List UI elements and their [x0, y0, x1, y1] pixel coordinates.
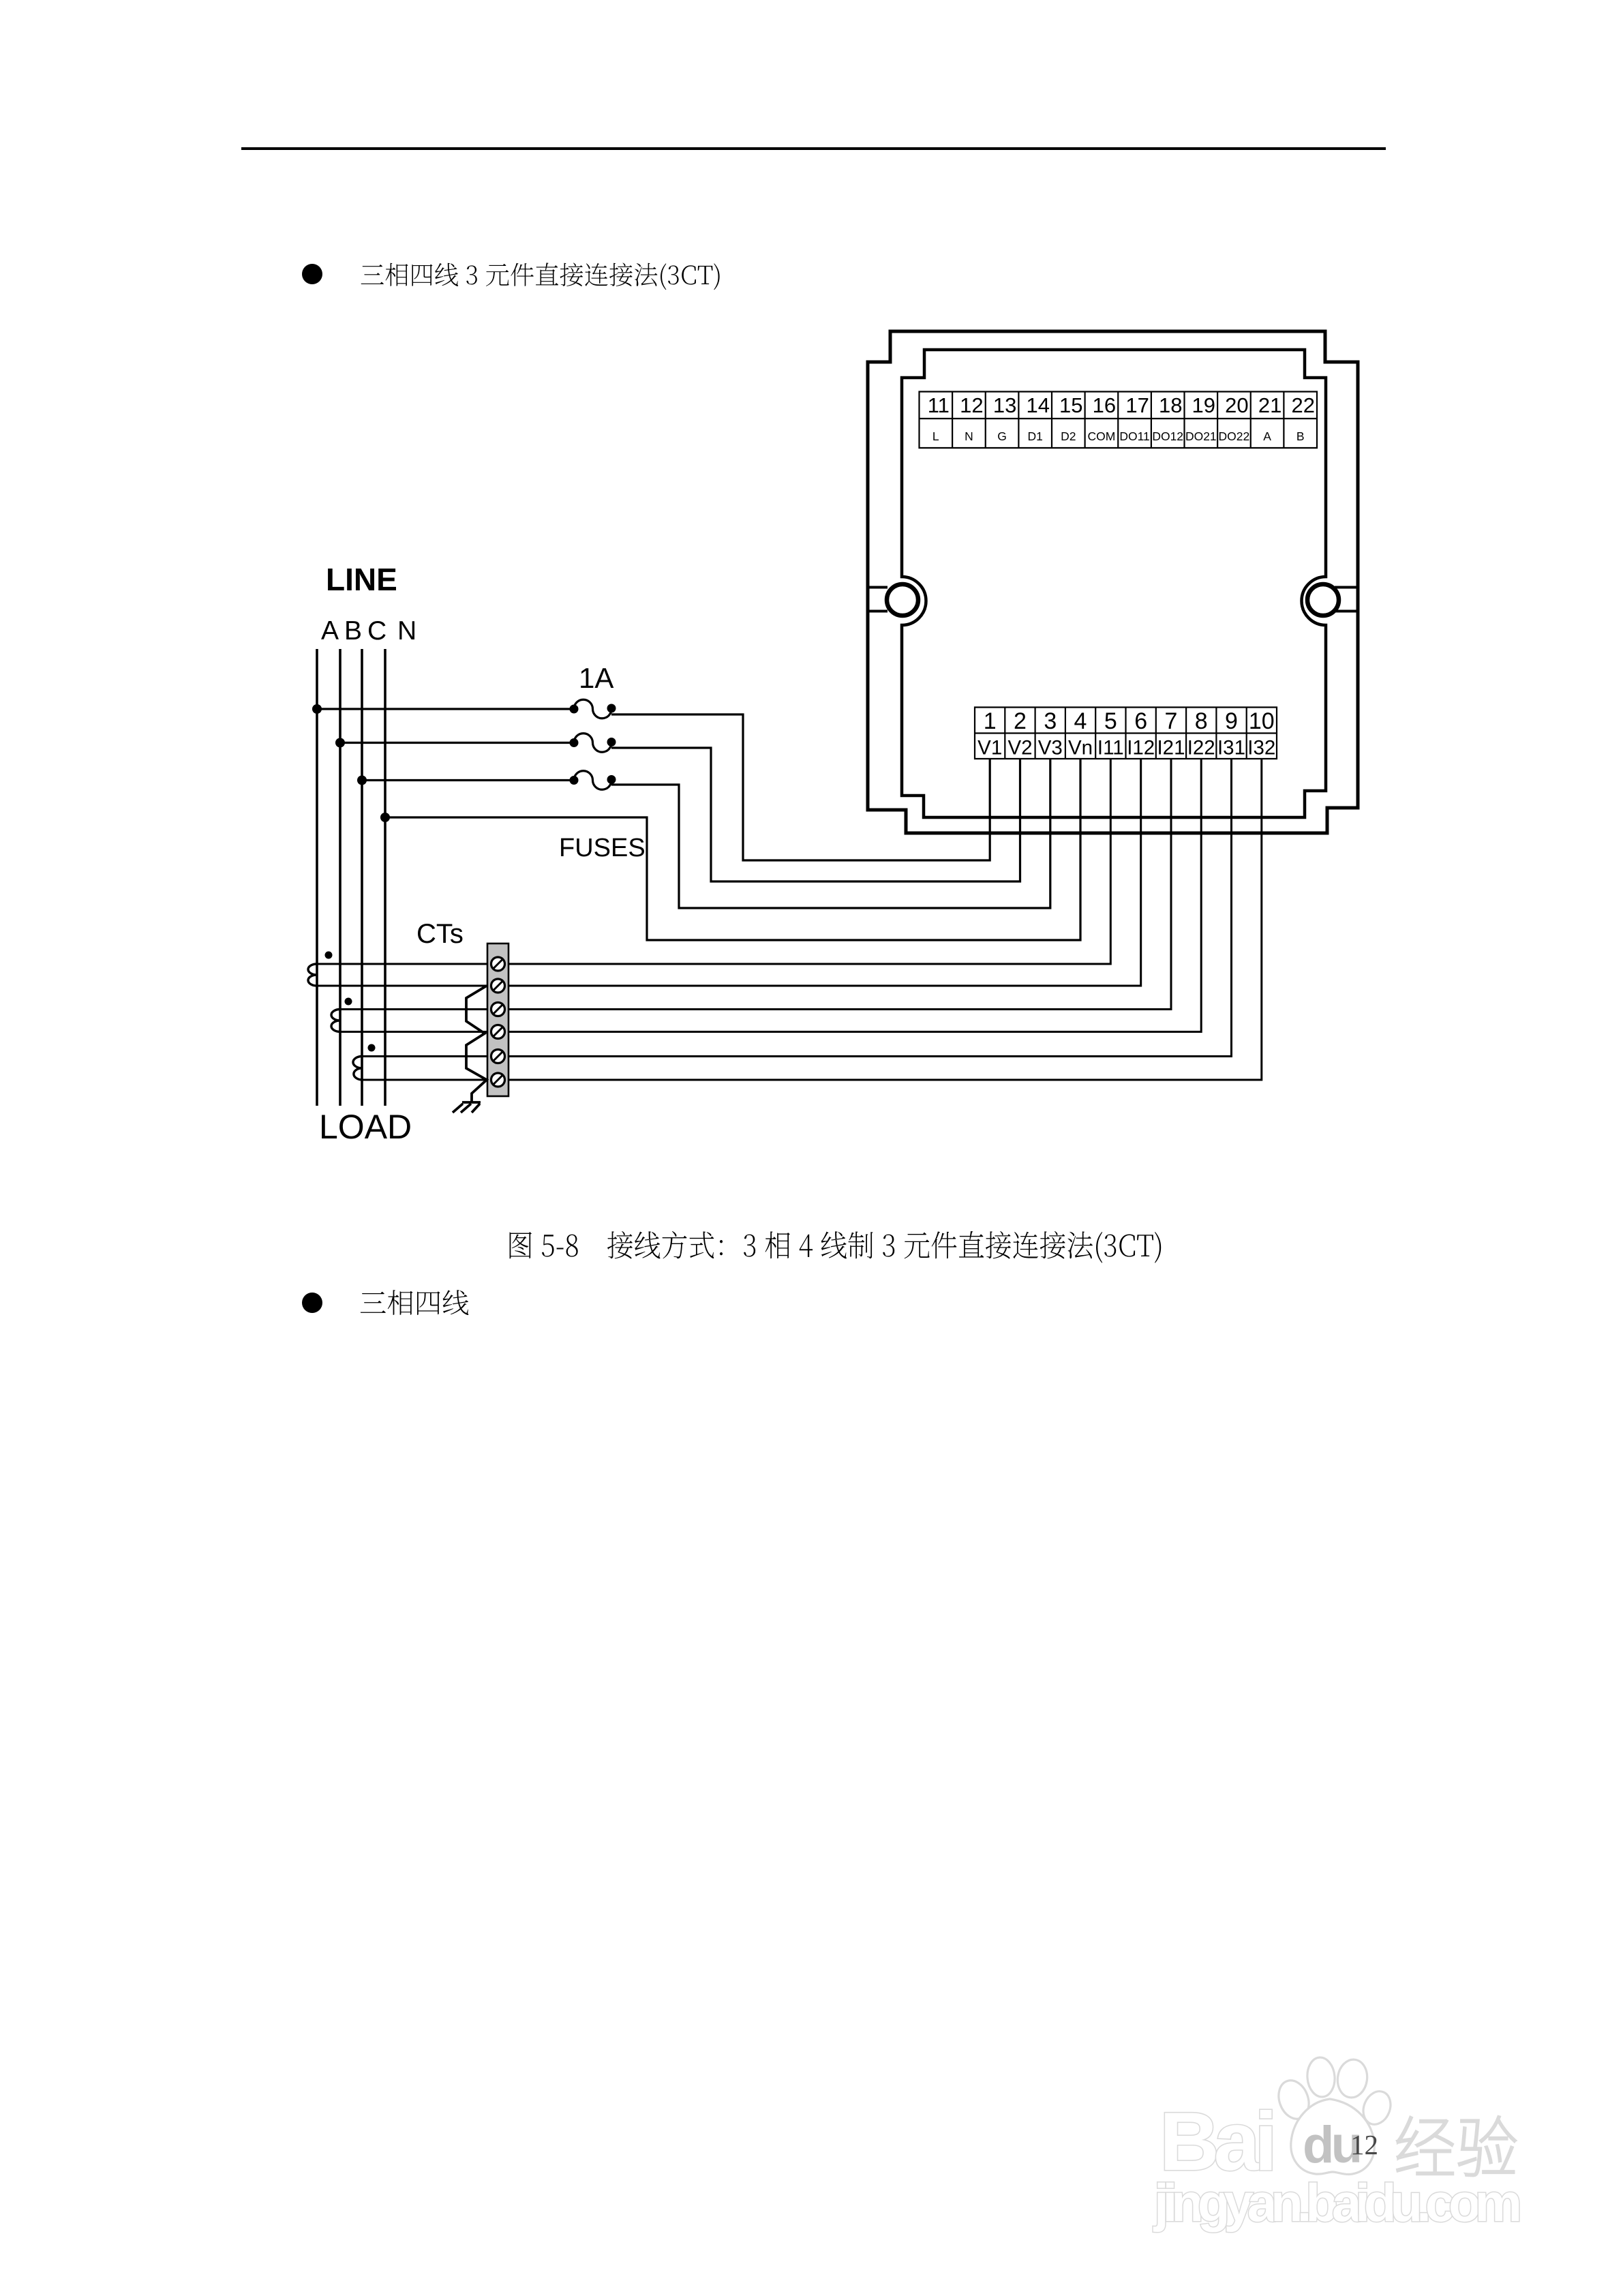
svg-text:I12: I12 — [1127, 737, 1155, 759]
svg-text:V3: V3 — [1038, 737, 1063, 759]
screw terminal 4 — [491, 1025, 505, 1039]
svg-text:19: 19 — [1192, 393, 1215, 417]
wire: fuse F1 output to terminal 1 (V1) — [611, 714, 990, 860]
svg-text:9: 9 — [1225, 708, 1238, 734]
svg-text:V2: V2 — [1007, 737, 1032, 759]
svg-text:17: 17 — [1125, 393, 1149, 417]
shorting zigzag link — [466, 986, 487, 1102]
svg-text:jingyan.baidu.com: jingyan.baidu.com — [1153, 2173, 1522, 2233]
svg-text:N: N — [397, 616, 416, 646]
svg-text:21: 21 — [1258, 393, 1281, 417]
screw terminal 1 — [491, 957, 505, 971]
top terminal labels L N G D1 D2 COM DO11 DO12 DO21 DO22 A B — [932, 429, 1305, 443]
screw terminal 3 — [491, 1003, 505, 1016]
svg-text:I11: I11 — [1097, 737, 1124, 759]
CT3 polarity dot — [368, 1044, 376, 1052]
junction dot on phase C — [357, 776, 367, 785]
meter outer outline — [868, 331, 1358, 833]
fuse F2 (1A) — [574, 734, 611, 752]
left mounting hole — [887, 584, 918, 616]
svg-text:DO22: DO22 — [1219, 429, 1250, 443]
watermark: 经验 — [1397, 2116, 1515, 2176]
svg-text:4: 4 — [1074, 708, 1087, 734]
wire: CT secondary to terminal 5 (I11) — [317, 759, 1110, 964]
svg-text:A: A — [1263, 429, 1271, 443]
heading text: 三相四线 3 元件直接连接法(3CT) — [361, 262, 720, 290]
svg-text:12: 12 — [1350, 2129, 1378, 2160]
svg-text:I31: I31 — [1217, 737, 1245, 759]
svg-text:1A: 1A — [579, 662, 613, 694]
phase line B — [339, 649, 342, 1106]
bottom terminal strip frame (terminals 1-10) — [975, 708, 1277, 759]
svg-text:D2: D2 — [1061, 429, 1076, 443]
svg-text:6: 6 — [1134, 708, 1147, 734]
left mounting tab — [868, 588, 888, 611]
phase line N — [384, 649, 386, 1106]
svg-text:N: N — [965, 429, 973, 443]
meter inner outline — [902, 350, 1326, 817]
CT2 polarity dot — [345, 998, 352, 1006]
wire: CT secondary to terminal 9 (I31) — [362, 759, 1232, 1057]
svg-text:12: 12 — [960, 393, 983, 417]
svg-text:15: 15 — [1059, 393, 1082, 417]
junction dot on phase A — [312, 704, 322, 714]
svg-text:14: 14 — [1026, 393, 1049, 417]
svg-text:L: L — [932, 429, 939, 443]
CT2 coil — [331, 1010, 340, 1032]
svg-text:20: 20 — [1225, 393, 1248, 417]
svg-text:V1: V1 — [977, 737, 1002, 759]
top terminal strip frame (terminals 11-22) — [920, 392, 1318, 449]
right mounting hole — [1307, 584, 1339, 616]
wire: phase B to fuse F2 — [340, 742, 574, 744]
svg-text:DO12: DO12 — [1152, 429, 1183, 443]
svg-text:LOAD: LOAD — [319, 1108, 412, 1146]
wire: fuse F2 output to terminal 2 (V2) — [611, 748, 1020, 881]
svg-text:D1: D1 — [1028, 429, 1043, 443]
wire: CT secondary to terminal 10 (I32) — [362, 759, 1262, 1080]
svg-text:18: 18 — [1159, 393, 1182, 417]
bullet marker 2 — [302, 1293, 322, 1313]
wire: CT secondary to terminal 8 (I22) — [340, 759, 1201, 1032]
svg-text:COM: COM — [1087, 429, 1115, 443]
svg-text:FUSES: FUSES — [559, 834, 646, 862]
fuse F3 (1A) — [574, 771, 611, 789]
svg-text:5: 5 — [1104, 708, 1117, 734]
bullet text: 三相四线 — [361, 1290, 469, 1315]
svg-text:1: 1 — [984, 708, 997, 734]
svg-text:DO21: DO21 — [1185, 429, 1217, 443]
svg-text:3: 3 — [1044, 708, 1057, 734]
CT3 coil — [353, 1057, 362, 1081]
top terminal pin numbers 11-22 — [928, 393, 1315, 417]
top rule — [241, 147, 1386, 150]
svg-text:I22: I22 — [1187, 737, 1215, 759]
phase labels A B C N — [321, 616, 416, 646]
svg-text:CTs: CTs — [416, 919, 464, 949]
svg-text:22: 22 — [1291, 393, 1314, 417]
svg-text:I32: I32 — [1247, 737, 1275, 759]
svg-text:G: G — [997, 429, 1007, 443]
svg-text:16: 16 — [1093, 393, 1116, 417]
CT1 polarity dot — [325, 952, 333, 959]
svg-text:10: 10 — [1249, 708, 1275, 734]
svg-text:DO11: DO11 — [1119, 429, 1149, 443]
svg-text:11: 11 — [928, 393, 950, 417]
wire: CT secondary to terminal 6 (I12) — [317, 759, 1141, 986]
fuse F1 (1A) — [574, 699, 611, 718]
junction dot on phase N — [380, 813, 390, 822]
junction dot on phase B — [335, 738, 345, 748]
ground symbol — [453, 1102, 481, 1113]
wire: CT secondary to terminal 7 (I21) — [340, 759, 1171, 1010]
svg-text:LINE: LINE — [326, 562, 397, 597]
svg-text:8: 8 — [1195, 708, 1208, 734]
wire: phase N to terminal 4 (Vn) — [385, 759, 1080, 940]
svg-text:B: B — [344, 616, 362, 646]
wire: fuse F3 output to terminal 3 (V3) — [611, 759, 1050, 908]
screw terminal 5 — [491, 1050, 505, 1063]
svg-text:I21: I21 — [1157, 737, 1185, 759]
svg-text:2: 2 — [1014, 708, 1027, 734]
svg-text:C: C — [367, 616, 386, 646]
figure caption: 图 5-8 接线方式：3相4线制3元件直接连接法(3CT) — [510, 1231, 1162, 1263]
svg-text:B: B — [1296, 429, 1305, 443]
screw terminal 6 — [491, 1073, 505, 1087]
wire: phase C to fuse F3 — [362, 779, 574, 781]
svg-text:A: A — [321, 616, 339, 646]
bottom terminal labels V1 V2 V3 Vn I11 I12 I21 I22 I31 I32 — [977, 737, 1275, 759]
phase line C — [361, 649, 363, 1106]
bottom terminal pin numbers 1-10 — [984, 708, 1275, 734]
screw terminal 2 — [491, 979, 505, 993]
watermark: Baidu Jingyan logo — [1159, 2056, 1395, 2188]
bullet marker 1 — [302, 264, 322, 284]
svg-text:13: 13 — [993, 393, 1016, 417]
wire: phase A to fuse F1 — [317, 708, 574, 710]
svg-text:Vn: Vn — [1068, 737, 1093, 759]
svg-text:7: 7 — [1165, 708, 1178, 734]
right mounting tab — [1335, 588, 1357, 611]
phase line A — [316, 649, 318, 1106]
CT shorting terminal strip — [487, 943, 509, 1096]
CT1 coil — [308, 964, 317, 986]
